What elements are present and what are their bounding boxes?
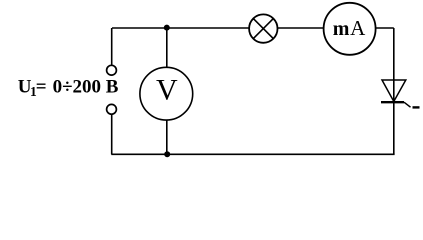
wire right vertical: [393, 28, 395, 154]
terminal X1 top: [107, 65, 117, 75]
svg-text:V: V: [156, 74, 178, 107]
thyristor VS cathode bar: [381, 101, 404, 103]
voltmeter PV circle: [140, 67, 193, 120]
svg-text:mA: mA: [333, 16, 366, 40]
lamp HL cross stroke 2: [253, 19, 273, 39]
lamp HL cross stroke 1: [253, 19, 273, 39]
wire left vertical lower (from bottom terminal): [111, 114, 113, 154]
thyristor VS gate dash: [413, 106, 420, 108]
terminal X2 bottom: [107, 104, 117, 114]
wire left vertical upper (to top terminal): [111, 28, 113, 65]
node junction top: [164, 25, 170, 31]
wire bottom rail: [111, 153, 394, 155]
thyristor VS triangle (anode): [382, 80, 406, 102]
node junction bottom: [164, 151, 170, 157]
milliammeter PA circle: [324, 3, 376, 55]
lamp HL circle: [249, 14, 277, 42]
thyristor VS gate lead: [404, 102, 411, 107]
wire top rail: [112, 27, 394, 29]
wire voltmeter branch: [166, 28, 168, 154]
